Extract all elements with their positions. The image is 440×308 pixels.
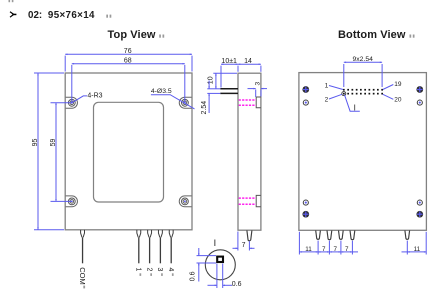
svg-text:9x2.54: 9x2.54	[352, 56, 373, 63]
label 2 leader	[329, 94, 342, 99]
svg-text:7: 7	[334, 246, 338, 253]
svg-text:3: 3	[156, 268, 163, 272]
dimension 59	[51, 103, 72, 202]
svg-text:10: 10	[207, 76, 214, 84]
ear tab top-right	[179, 97, 191, 108]
svg-text:59: 59	[50, 139, 57, 147]
svg-text:95×76×14: 95×76×14	[48, 10, 95, 21]
hole bottom-right	[182, 198, 189, 205]
dimension 95	[34, 73, 64, 230]
mount hole screw bottom-left	[302, 211, 309, 218]
mount hole screw bottom-right	[416, 211, 423, 218]
leader 4-R3	[72, 96, 87, 103]
notch 1	[256, 97, 261, 108]
mount hole ring top-right	[417, 100, 422, 105]
svg-text:2: 2	[325, 97, 329, 104]
bottom view pin stub 4	[350, 230, 355, 239]
side view outline	[238, 73, 261, 230]
dim 9x2.54	[344, 62, 382, 87]
bottom view pin stub 3	[339, 230, 344, 239]
pin1 indicator circle	[342, 92, 346, 96]
mount hole screw top-right	[416, 86, 423, 93]
dim 10 vertical	[213, 73, 237, 89]
svg-text:11: 11	[414, 246, 421, 253]
svg-text:4-R3: 4-R3	[87, 93, 102, 100]
leader 4-d3.5	[151, 95, 195, 109]
bottom view pin stub 2	[327, 230, 332, 239]
pin dot rows	[343, 89, 383, 95]
pin 2	[148, 230, 152, 263]
ear tab top-left	[66, 97, 78, 108]
svg-text:76: 76	[124, 48, 132, 55]
stray paragraph marks top-left	[9, 0, 14, 2]
flange plate	[220, 89, 238, 94]
svg-text:0.6: 0.6	[189, 271, 196, 281]
dimension 76	[65, 54, 192, 71]
svg-text:1: 1	[325, 83, 329, 90]
svg-text:0.6: 0.6	[232, 281, 242, 288]
svg-text:7: 7	[322, 246, 326, 253]
detail circle	[205, 250, 235, 280]
dim 2.54	[207, 81, 220, 114]
mount hole ring top-left	[303, 100, 308, 105]
svg-text:14: 14	[244, 58, 252, 65]
hole centre dots blue	[71, 102, 186, 202]
mount hole ring bottom-right	[417, 200, 422, 205]
svg-text:4-Ø3.5: 4-Ø3.5	[151, 88, 172, 95]
hidden pin row 1 magenta	[239, 100, 256, 105]
svg-text:20: 20	[394, 97, 402, 104]
svg-text:10±1: 10±1	[221, 58, 237, 65]
dim 14	[238, 64, 261, 72]
dim 3	[248, 89, 268, 97]
svg-text:02:: 02:	[28, 10, 42, 21]
pin 3	[158, 230, 162, 263]
svg-text:3: 3	[255, 82, 262, 86]
top view inner lid	[94, 102, 164, 202]
hole top-right	[182, 99, 189, 106]
dim 10+-1	[221, 64, 238, 87]
svg-text:I: I	[354, 103, 356, 112]
svg-text:95: 95	[32, 139, 39, 147]
pin COM	[81, 230, 85, 263]
ear tab bottom-left	[66, 196, 78, 207]
svg-text:I: I	[214, 238, 217, 248]
dimension 68	[72, 64, 185, 103]
svg-text:11: 11	[305, 246, 312, 253]
pin 1	[137, 230, 141, 263]
dim 0.6 bottom	[208, 264, 233, 289]
svg-text:4: 4	[167, 268, 174, 272]
hidden pin row 2 magenta	[239, 198, 256, 204]
hole bottom-left	[68, 198, 75, 205]
mount hole ring bottom-left	[303, 200, 308, 205]
label 19 leader	[383, 85, 394, 90]
svg-text:68: 68	[124, 57, 132, 64]
svg-text:1: 1	[135, 268, 142, 272]
svg-text:Top View: Top View	[108, 29, 156, 41]
notch 2	[256, 195, 261, 206]
leader to detail I	[345, 95, 360, 111]
svg-text:7: 7	[345, 246, 349, 253]
pin section square	[217, 257, 223, 262]
dim 0.6 left	[197, 248, 217, 282]
label 20 leader	[383, 94, 394, 99]
side pin	[247, 230, 252, 240]
svg-text:2: 2	[145, 268, 152, 272]
svg-text:COM: COM	[78, 267, 87, 285]
bottom dims 11 7 7 7 11	[299, 232, 426, 255]
svg-text:Bottom View: Bottom View	[338, 29, 406, 41]
svg-text:2.54: 2.54	[201, 101, 208, 115]
mount hole screw top-left	[302, 86, 309, 93]
ear tab bottom-right	[179, 196, 191, 207]
bottom view pin stub 1	[316, 230, 321, 239]
top view package outline	[65, 73, 192, 230]
label 1 leader	[329, 86, 343, 90]
hole top-left	[68, 99, 75, 106]
pin 4	[169, 230, 173, 263]
svg-text:19: 19	[394, 81, 402, 88]
bottom view pin stub COM	[405, 230, 410, 239]
bullet arrow	[10, 12, 16, 17]
bottom view outline	[299, 73, 427, 231]
svg-text:7: 7	[242, 242, 246, 249]
dim 7 side	[233, 232, 255, 251]
